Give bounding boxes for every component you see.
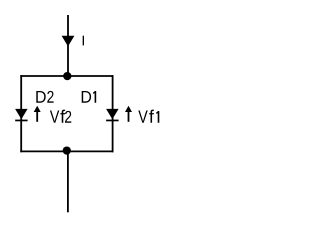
label Vf1 [138,110,159,123]
label Vf2 [50,110,71,123]
wire: left vertical branch [20,75,22,152]
label D1 [82,91,96,103]
wire: bottom vertical return [67,151,69,212]
wire: top horizontal bus [20,75,113,77]
node: top junction dot [63,72,71,80]
node: bottom junction dot [63,146,71,154]
Vf1 polarity arrow (points up) [125,106,132,122]
wire: right vertical branch [112,75,114,152]
Vf2 polarity arrow (points up) [34,106,41,122]
label I [83,36,84,46]
wire: top vertical feed [67,15,69,76]
wire: bottom horizontal bus [20,150,113,152]
diode D2 symbol [15,109,28,121]
label D2 [36,91,53,103]
diode D1 symbol [106,109,119,121]
current arrowhead I (points down) [62,36,75,47]
